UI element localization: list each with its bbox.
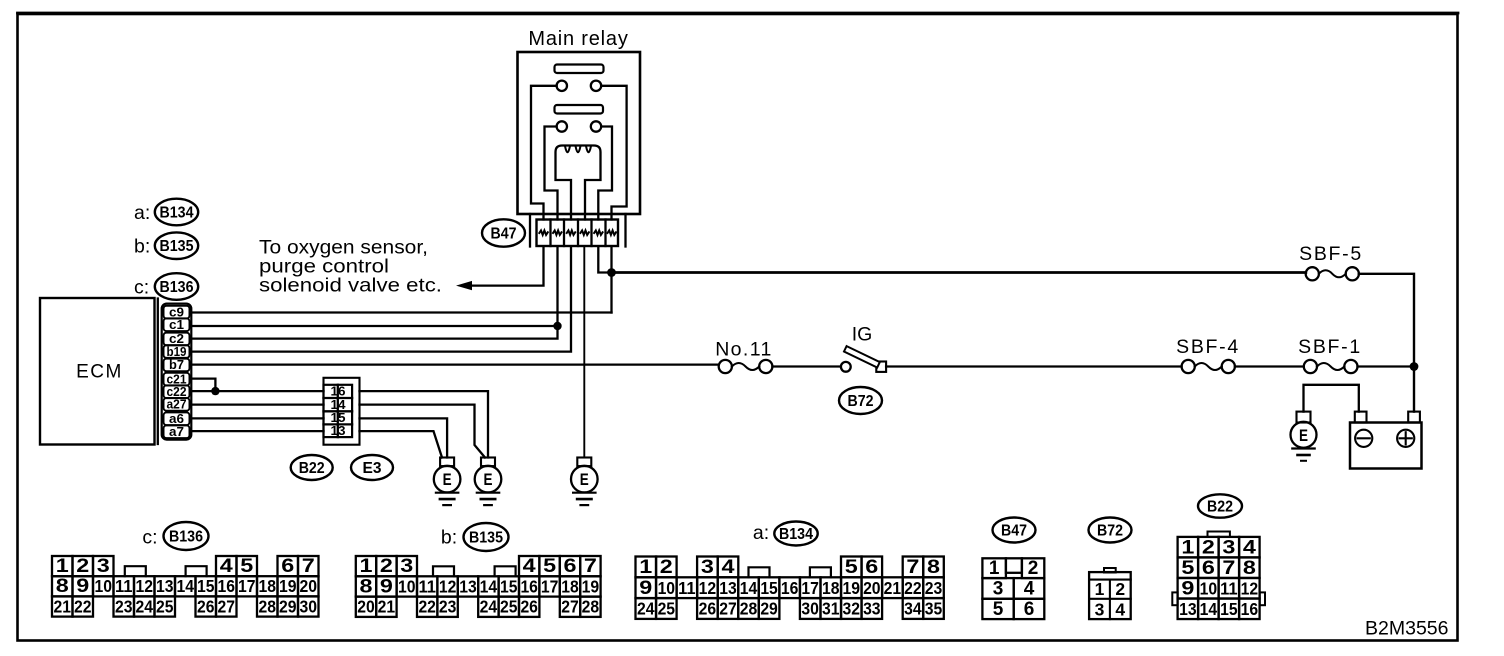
wire pin4 to ground E [583,247,585,458]
svg-text:b7: b7 [169,357,184,372]
svg-text:5: 5 [993,599,1004,620]
svg-text:31: 31 [822,599,840,619]
wire b7 row [190,363,719,365]
svg-text:27: 27 [561,597,579,617]
svg-text:15: 15 [331,411,346,425]
svg-text:23: 23 [925,578,943,598]
svg-text:9: 9 [1181,579,1194,600]
wire battery - to ground [1304,385,1359,412]
battery [1350,412,1422,469]
svg-text:9: 9 [76,576,89,597]
relay: Main relay [518,28,641,220]
wire pin1 to oxygen sensor (with arrow) [456,247,544,291]
svg-text:B47: B47 [491,226,517,243]
svg-text:B135: B135 [160,238,194,255]
connector B72 pinout [1089,518,1132,620]
svg-text:5: 5 [543,556,557,577]
svg-text:29: 29 [760,599,778,619]
svg-text:E: E [580,470,589,489]
svg-text:11: 11 [115,576,133,596]
connector B47 pinout [982,518,1044,621]
svg-text:4: 4 [1243,538,1257,559]
svg-text:2: 2 [1028,558,1039,579]
svg-text:a7: a7 [169,424,184,439]
wire c9 row [190,311,612,313]
ECM connector pin terminals [162,304,192,440]
svg-text:18: 18 [259,576,277,596]
svg-text:E: E [1299,426,1308,445]
svg-text:20: 20 [300,576,318,596]
svg-text:16: 16 [218,576,236,596]
svg-text:19: 19 [279,576,297,596]
svg-text:3: 3 [1095,599,1105,619]
svg-text:29: 29 [279,596,297,616]
wire c9 drop [610,273,612,313]
fuse SBF-5 [1299,243,1363,280]
svg-text:18: 18 [822,578,840,598]
svg-text:12: 12 [136,576,154,596]
svg-text:4: 4 [220,556,234,577]
wire IG to SBF-4 [886,365,1182,367]
svg-text:15: 15 [760,578,778,598]
wire pin2 to ECM c1/c2 [190,247,558,339]
svg-text:14: 14 [177,576,195,596]
connector c:B136 pinout [52,522,319,617]
svg-text:c1: c1 [169,317,184,332]
wire pin6 to junction [610,247,612,273]
svg-text:14: 14 [740,578,758,598]
svg-text:25: 25 [658,599,676,619]
ground E (ECM a7/a6) [434,458,461,506]
svg-text:E3: E3 [363,460,382,477]
connector B22/E3 inline [324,378,360,445]
ground E (main relay) [571,458,598,506]
svg-text:2: 2 [1202,538,1215,559]
svg-text:34: 34 [904,599,922,619]
svg-text:c:: c: [134,277,149,299]
ECM [40,298,158,445]
svg-text:12: 12 [439,576,457,596]
callout c: B136 [134,273,198,300]
svg-text:4: 4 [1115,599,1125,619]
svg-text:33: 33 [863,599,881,619]
svg-text:25: 25 [500,597,518,617]
svg-text:B72: B72 [848,393,874,410]
svg-text:3: 3 [400,556,413,577]
junction dot c21/c22 [211,387,219,395]
svg-text:10: 10 [95,576,113,596]
svg-text:b:: b: [134,236,150,258]
svg-text:13: 13 [1179,599,1197,619]
junction dot B+ feed [607,268,616,277]
svg-text:17: 17 [238,576,256,596]
wire junction to battery terminal [1413,367,1415,412]
wire SBF-5 to battery + [1359,274,1414,362]
svg-text:21: 21 [54,596,72,616]
svg-text:2: 2 [380,556,393,577]
svg-text:7: 7 [302,556,315,577]
svg-text:14: 14 [1200,599,1218,619]
svg-text:10: 10 [1200,579,1218,599]
svg-text:B2M3556: B2M3556 [1365,618,1448,640]
svg-text:30: 30 [801,599,819,619]
svg-text:B134: B134 [160,205,194,222]
svg-text:32: 32 [843,599,861,619]
svg-text:11: 11 [678,578,696,598]
svg-text:IG: IG [852,324,873,346]
svg-text:6: 6 [1202,558,1215,579]
connector label B22 (inline) [291,455,333,480]
wire a27 row [190,403,324,405]
svg-text:6: 6 [564,556,577,577]
fuse SBF-4 [1176,336,1240,373]
svg-text:20: 20 [357,597,375,617]
svg-text:a:: a: [134,202,150,224]
svg-text:23: 23 [115,596,133,616]
svg-text:13: 13 [719,578,737,598]
svg-text:21: 21 [378,597,396,617]
wire SBF-1 to battery [1358,365,1415,367]
svg-text:9: 9 [639,578,652,599]
wire SBF-4 to SBF-1 [1235,365,1304,367]
svg-text:1: 1 [360,556,374,577]
svg-text:23: 23 [439,597,457,617]
svg-text:solenoid valve etc.: solenoid valve etc. [259,275,442,297]
svg-text:10: 10 [398,576,416,596]
svg-text:B135: B135 [469,530,503,547]
svg-text:28: 28 [582,597,600,617]
svg-text:B47: B47 [1001,522,1027,539]
svg-text:B136: B136 [169,529,203,546]
svg-text:26: 26 [520,597,538,617]
wire c21 jog [190,379,215,391]
svg-text:28: 28 [259,596,277,616]
callout a: B134 [134,199,198,226]
wire c22 row [190,390,324,392]
svg-text:a:: a: [753,522,769,544]
wire 14 to ground [360,405,486,458]
svg-text:5: 5 [845,557,859,578]
svg-text:1: 1 [989,558,1000,579]
svg-text:Main relay: Main relay [528,28,628,50]
svg-text:26: 26 [197,596,215,616]
svg-text:15: 15 [197,576,215,596]
svg-text:24: 24 [136,596,154,616]
connector b:B135 pinout [356,523,601,617]
svg-text:3: 3 [701,557,714,578]
diagram id B2M3556 [1365,618,1448,640]
svg-text:5: 5 [1181,558,1195,579]
ignition switch IG [841,324,886,372]
svg-text:24: 24 [480,597,498,617]
svg-text:2: 2 [660,557,673,578]
svg-text:25: 25 [156,596,174,616]
svg-text:30: 30 [300,596,318,616]
svg-text:27: 27 [719,599,737,619]
svg-text:ECM: ECM [76,362,123,383]
svg-text:11: 11 [418,576,436,596]
svg-text:26: 26 [699,599,717,619]
svg-text:19: 19 [582,576,600,596]
svg-text:16: 16 [520,576,538,596]
svg-text:SBF-5: SBF-5 [1299,243,1363,265]
wire a7 row [190,430,324,432]
wire a6 row [190,417,324,419]
fuse SBF-1 [1298,336,1362,373]
svg-text:21: 21 [884,578,902,598]
svg-text:1: 1 [1181,538,1195,559]
svg-text:12: 12 [699,578,717,598]
connector B22 pinout [1172,494,1265,619]
svg-text:B134: B134 [779,526,813,543]
svg-text:22: 22 [418,597,436,617]
wire pin3 to ECM b19 [190,247,571,352]
svg-text:E: E [443,470,452,489]
wire 15 to ground [360,418,448,457]
svg-text:4: 4 [523,556,537,577]
svg-text:c:: c: [142,527,157,549]
fuse No.11 [715,339,773,374]
svg-text:B22: B22 [299,460,325,477]
wire pin5 jog [598,247,611,273]
svg-text:6: 6 [281,556,294,577]
connector a:B134 pinout [636,522,944,619]
svg-text:2: 2 [76,556,89,577]
svg-text:7: 7 [584,556,597,577]
svg-text:5: 5 [240,556,254,577]
svg-text:1: 1 [56,556,70,577]
svg-text:8: 8 [56,576,69,597]
svg-text:a27: a27 [167,397,187,412]
svg-text:16: 16 [331,385,346,399]
svg-text:1: 1 [639,557,653,578]
svg-text:18: 18 [561,576,579,596]
svg-text:B136: B136 [160,279,194,296]
svg-text:19: 19 [843,578,861,598]
svg-text:14: 14 [480,576,498,596]
ground E (ECM c22/a27) [475,458,502,506]
svg-text:12: 12 [1241,579,1259,599]
svg-text:3: 3 [97,556,110,577]
svg-text:24: 24 [637,599,655,619]
svg-text:8: 8 [360,576,373,597]
wire 13 to ground [360,431,443,457]
svg-text:4: 4 [721,557,735,578]
svg-text:14: 14 [331,398,346,412]
ground E (battery) [1291,412,1317,461]
connector label B47 [482,219,525,246]
svg-text:22: 22 [74,596,92,616]
svg-text:2: 2 [1115,579,1125,599]
svg-text:3: 3 [1222,538,1235,559]
svg-text:13: 13 [459,576,477,596]
svg-text:27: 27 [218,596,236,616]
wire No.11 to IG [772,365,841,367]
svg-text:13: 13 [156,576,174,596]
svg-text:SBF-4: SBF-4 [1176,336,1240,358]
junction dot battery branch [1410,362,1419,371]
svg-text:17: 17 [801,578,819,598]
svg-text:10: 10 [658,578,676,598]
svg-text:No.11: No.11 [715,339,773,361]
callout b: B135 [134,232,198,259]
note: to oxygen sensor [259,237,442,297]
svg-text:7: 7 [906,557,919,578]
svg-text:15: 15 [1220,599,1238,619]
svg-text:B72: B72 [1097,522,1123,539]
svg-text:7: 7 [1222,558,1235,579]
svg-text:20: 20 [863,578,881,598]
svg-text:B22: B22 [1207,498,1233,515]
svg-text:6: 6 [1024,599,1035,620]
wire 16 to ground [360,391,489,457]
svg-text:35: 35 [925,599,943,619]
svg-text:3: 3 [993,579,1004,600]
connector label B72 (switch) [839,387,882,414]
svg-text:16: 16 [1241,599,1259,619]
svg-text:17: 17 [541,576,559,596]
svg-text:22: 22 [904,578,922,598]
svg-text:6: 6 [865,557,878,578]
svg-text:4: 4 [1024,579,1035,600]
junction dot c1 [553,322,561,330]
svg-text:b:: b: [441,527,457,549]
svg-text:9: 9 [380,576,393,597]
connector B47 relay socket [530,214,626,247]
svg-text:8: 8 [1243,558,1256,579]
svg-text:SBF-1: SBF-1 [1298,336,1362,358]
svg-text:1: 1 [1095,579,1105,599]
svg-text:11: 11 [1220,579,1238,599]
svg-text:8: 8 [927,557,940,578]
connector label E3 [351,455,393,480]
svg-text:15: 15 [500,576,518,596]
svg-text:28: 28 [740,599,758,619]
svg-text:E: E [484,470,493,489]
wire battery feed to SBF-5 [612,271,1306,274]
svg-text:13: 13 [331,424,346,438]
svg-text:16: 16 [781,578,799,598]
